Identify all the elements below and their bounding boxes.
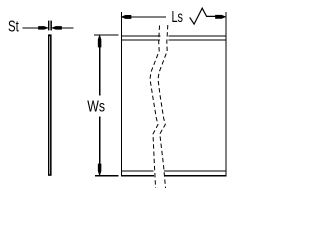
- svg-text:St: St: [8, 19, 19, 36]
- svg-text:Ls: Ls: [172, 9, 184, 26]
- svg-text:Ws: Ws: [87, 99, 105, 116]
